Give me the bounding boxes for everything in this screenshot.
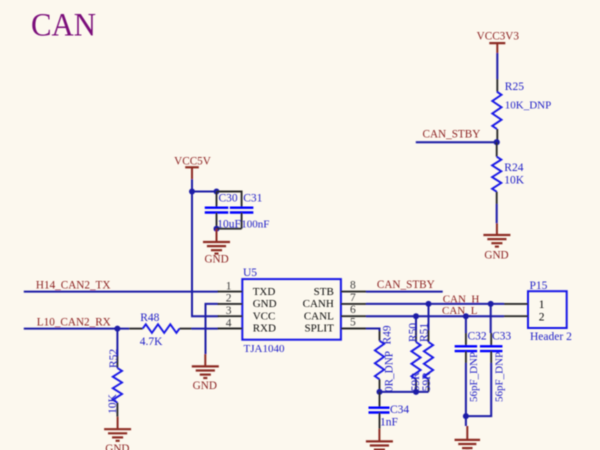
svg-text:10K: 10K <box>107 393 119 414</box>
svg-text:RXD: RXD <box>253 323 276 335</box>
svg-text:R25: R25 <box>505 81 524 93</box>
wire CANL to header pin2 <box>366 315 504 317</box>
svg-text:3: 3 <box>226 305 232 317</box>
svg-text:STB: STB <box>314 286 334 298</box>
ground below R52 <box>117 417 119 430</box>
svg-text:H14_CAN2_TX: H14_CAN2_TX <box>36 279 111 291</box>
svg-text:R49: R49 <box>382 325 394 344</box>
U5 pin 8 STB <box>341 291 366 293</box>
U5 pin 3 VCC <box>218 315 243 317</box>
P15 pin 1 <box>504 303 528 305</box>
wire CAN_STBY <box>416 141 497 143</box>
capacitor C32 56pF_DNP <box>465 316 467 333</box>
svg-text:100nF: 100nF <box>241 219 269 231</box>
svg-text:56pF_DNP: 56pF_DNP <box>468 352 480 402</box>
svg-text:R51: R51 <box>419 323 431 342</box>
junction R50 on CAN_L <box>413 313 419 319</box>
svg-text:6: 6 <box>350 304 356 316</box>
junction C30 top <box>214 189 220 195</box>
svg-text:4.7K: 4.7K <box>140 336 163 348</box>
svg-text:GND: GND <box>193 380 217 392</box>
junction C32 on CAN_L <box>463 313 469 319</box>
ground below C32/C33 <box>466 426 468 440</box>
wire CAN2_RX to R48 <box>24 328 129 330</box>
svg-text:SPLIT: SPLIT <box>304 323 334 335</box>
svg-text:1: 1 <box>539 299 545 311</box>
wire U5 pin2 to ground <box>206 304 219 354</box>
svg-text:VCC3V3: VCC3V3 <box>477 31 520 43</box>
svg-text:GND: GND <box>253 298 277 310</box>
junction C30 bottom <box>214 226 220 232</box>
wire VCC3V3 to R25 <box>496 53 498 79</box>
svg-text:7: 7 <box>350 292 356 304</box>
resistor R24 10K <box>496 142 498 157</box>
svg-text:10K_DNP: 10K_DNP <box>505 100 551 112</box>
wire R48 to U5 pin4 <box>192 328 219 330</box>
resistor R48 4.7K <box>129 328 143 330</box>
svg-text:L10_CAN2_RX: L10_CAN2_RX <box>37 317 111 329</box>
U5 pin 1 TXD <box>218 291 243 293</box>
op IC U5 TJA1040 box <box>242 279 341 340</box>
svg-text:CANL: CANL <box>304 310 334 322</box>
wire R24 to ground <box>496 204 498 223</box>
wire R49-R50-R51 bottoms <box>380 391 429 393</box>
capacitor C33 56pF_DNP <box>490 304 492 333</box>
junction R51 on CAN_H <box>426 301 432 307</box>
svg-text:U5: U5 <box>243 267 257 279</box>
svg-text:R50: R50 <box>407 323 419 342</box>
wire C30 to C31 top <box>217 192 242 204</box>
svg-text:2: 2 <box>226 293 232 305</box>
wire CAN2_TX to U5 pin1 <box>24 291 219 293</box>
svg-text:C32: C32 <box>468 331 487 343</box>
svg-text:5: 5 <box>350 317 356 329</box>
ground below C34 <box>378 429 380 442</box>
P15 pin 2 <box>504 315 528 317</box>
svg-text:VCC: VCC <box>253 310 276 322</box>
junction R25/R24/CAN_STBY <box>494 139 500 145</box>
svg-text:0R_DNP: 0R_DNP <box>384 351 396 392</box>
svg-text:CAN_STBY: CAN_STBY <box>423 129 481 141</box>
svg-text:8: 8 <box>350 280 356 292</box>
svg-text:59R: 59R <box>421 372 433 392</box>
U5 pin 6 CANL <box>341 315 366 317</box>
junction R52 tap <box>114 326 120 332</box>
U5 pin 2 GND <box>218 303 243 305</box>
svg-text:56pF_DNP: 56pF_DNP <box>493 352 505 402</box>
svg-text:CANH: CANH <box>303 298 334 310</box>
svg-text:CAN: CAN <box>31 7 96 43</box>
svg-text:GND: GND <box>484 250 508 262</box>
svg-text:1nF: 1nF <box>380 417 398 429</box>
capacitor C30 <box>216 192 218 207</box>
U5 pin 4 RXD <box>218 328 243 330</box>
svg-text:GND: GND <box>105 443 129 450</box>
svg-text:Header 2: Header 2 <box>530 331 572 343</box>
svg-text:2: 2 <box>539 311 545 323</box>
junction C32/C33 bottoms <box>463 413 469 419</box>
ground below C30 <box>216 229 218 242</box>
U5 pin 7 CANH <box>341 303 366 305</box>
ground below U5 <box>204 354 206 366</box>
junction C33 on CAN_H <box>488 301 494 307</box>
resistor R49 0R_DNP <box>375 341 384 380</box>
svg-text:P15: P15 <box>530 280 548 292</box>
svg-text:C33: C33 <box>492 331 511 343</box>
U5 pin 5 SPLIT <box>341 328 366 330</box>
resistor R51 59R <box>428 304 430 330</box>
capacitor C34 1nF <box>379 392 381 407</box>
svg-text:C34: C34 <box>390 404 409 416</box>
connector P15 box <box>528 291 567 328</box>
svg-text:TXD: TXD <box>253 286 276 298</box>
wire pin5 SPLIT to R49 <box>366 329 380 332</box>
wire CANH to header pin1 <box>366 303 504 305</box>
wire junction down to ground <box>465 416 467 426</box>
svg-text:10K: 10K <box>504 175 525 187</box>
resistor R52 10K <box>116 329 118 356</box>
svg-text:GND: GND <box>204 253 228 265</box>
svg-text:TJA1040: TJA1040 <box>244 343 285 355</box>
svg-text:4: 4 <box>226 317 232 329</box>
capacitor C31 <box>241 204 243 207</box>
svg-text:CAN_STBY: CAN_STBY <box>377 279 435 291</box>
svg-text:R48: R48 <box>140 312 159 324</box>
svg-text:R24: R24 <box>504 162 523 174</box>
svg-text:1: 1 <box>226 280 232 292</box>
wire pin8 CAN_STBY <box>366 291 443 293</box>
wire VCC5V to C30 <box>192 191 217 193</box>
ground below R24 <box>496 223 498 235</box>
svg-text:C30: C30 <box>219 193 238 205</box>
junction R49/C34 <box>377 389 383 395</box>
svg-text:R52: R52 <box>108 349 120 368</box>
wire C30-C31 bottom <box>217 228 242 230</box>
junction R50 bottom <box>413 389 419 395</box>
resistor R50 59R <box>415 316 417 330</box>
wire VCC5V vertical to U5 pin3 <box>191 179 193 316</box>
svg-text:VCC5V: VCC5V <box>174 156 211 168</box>
junction VCC5V/C30 branch <box>189 189 195 195</box>
svg-text:C31: C31 <box>243 193 262 205</box>
resistor R25 10K_DNP <box>496 79 498 92</box>
